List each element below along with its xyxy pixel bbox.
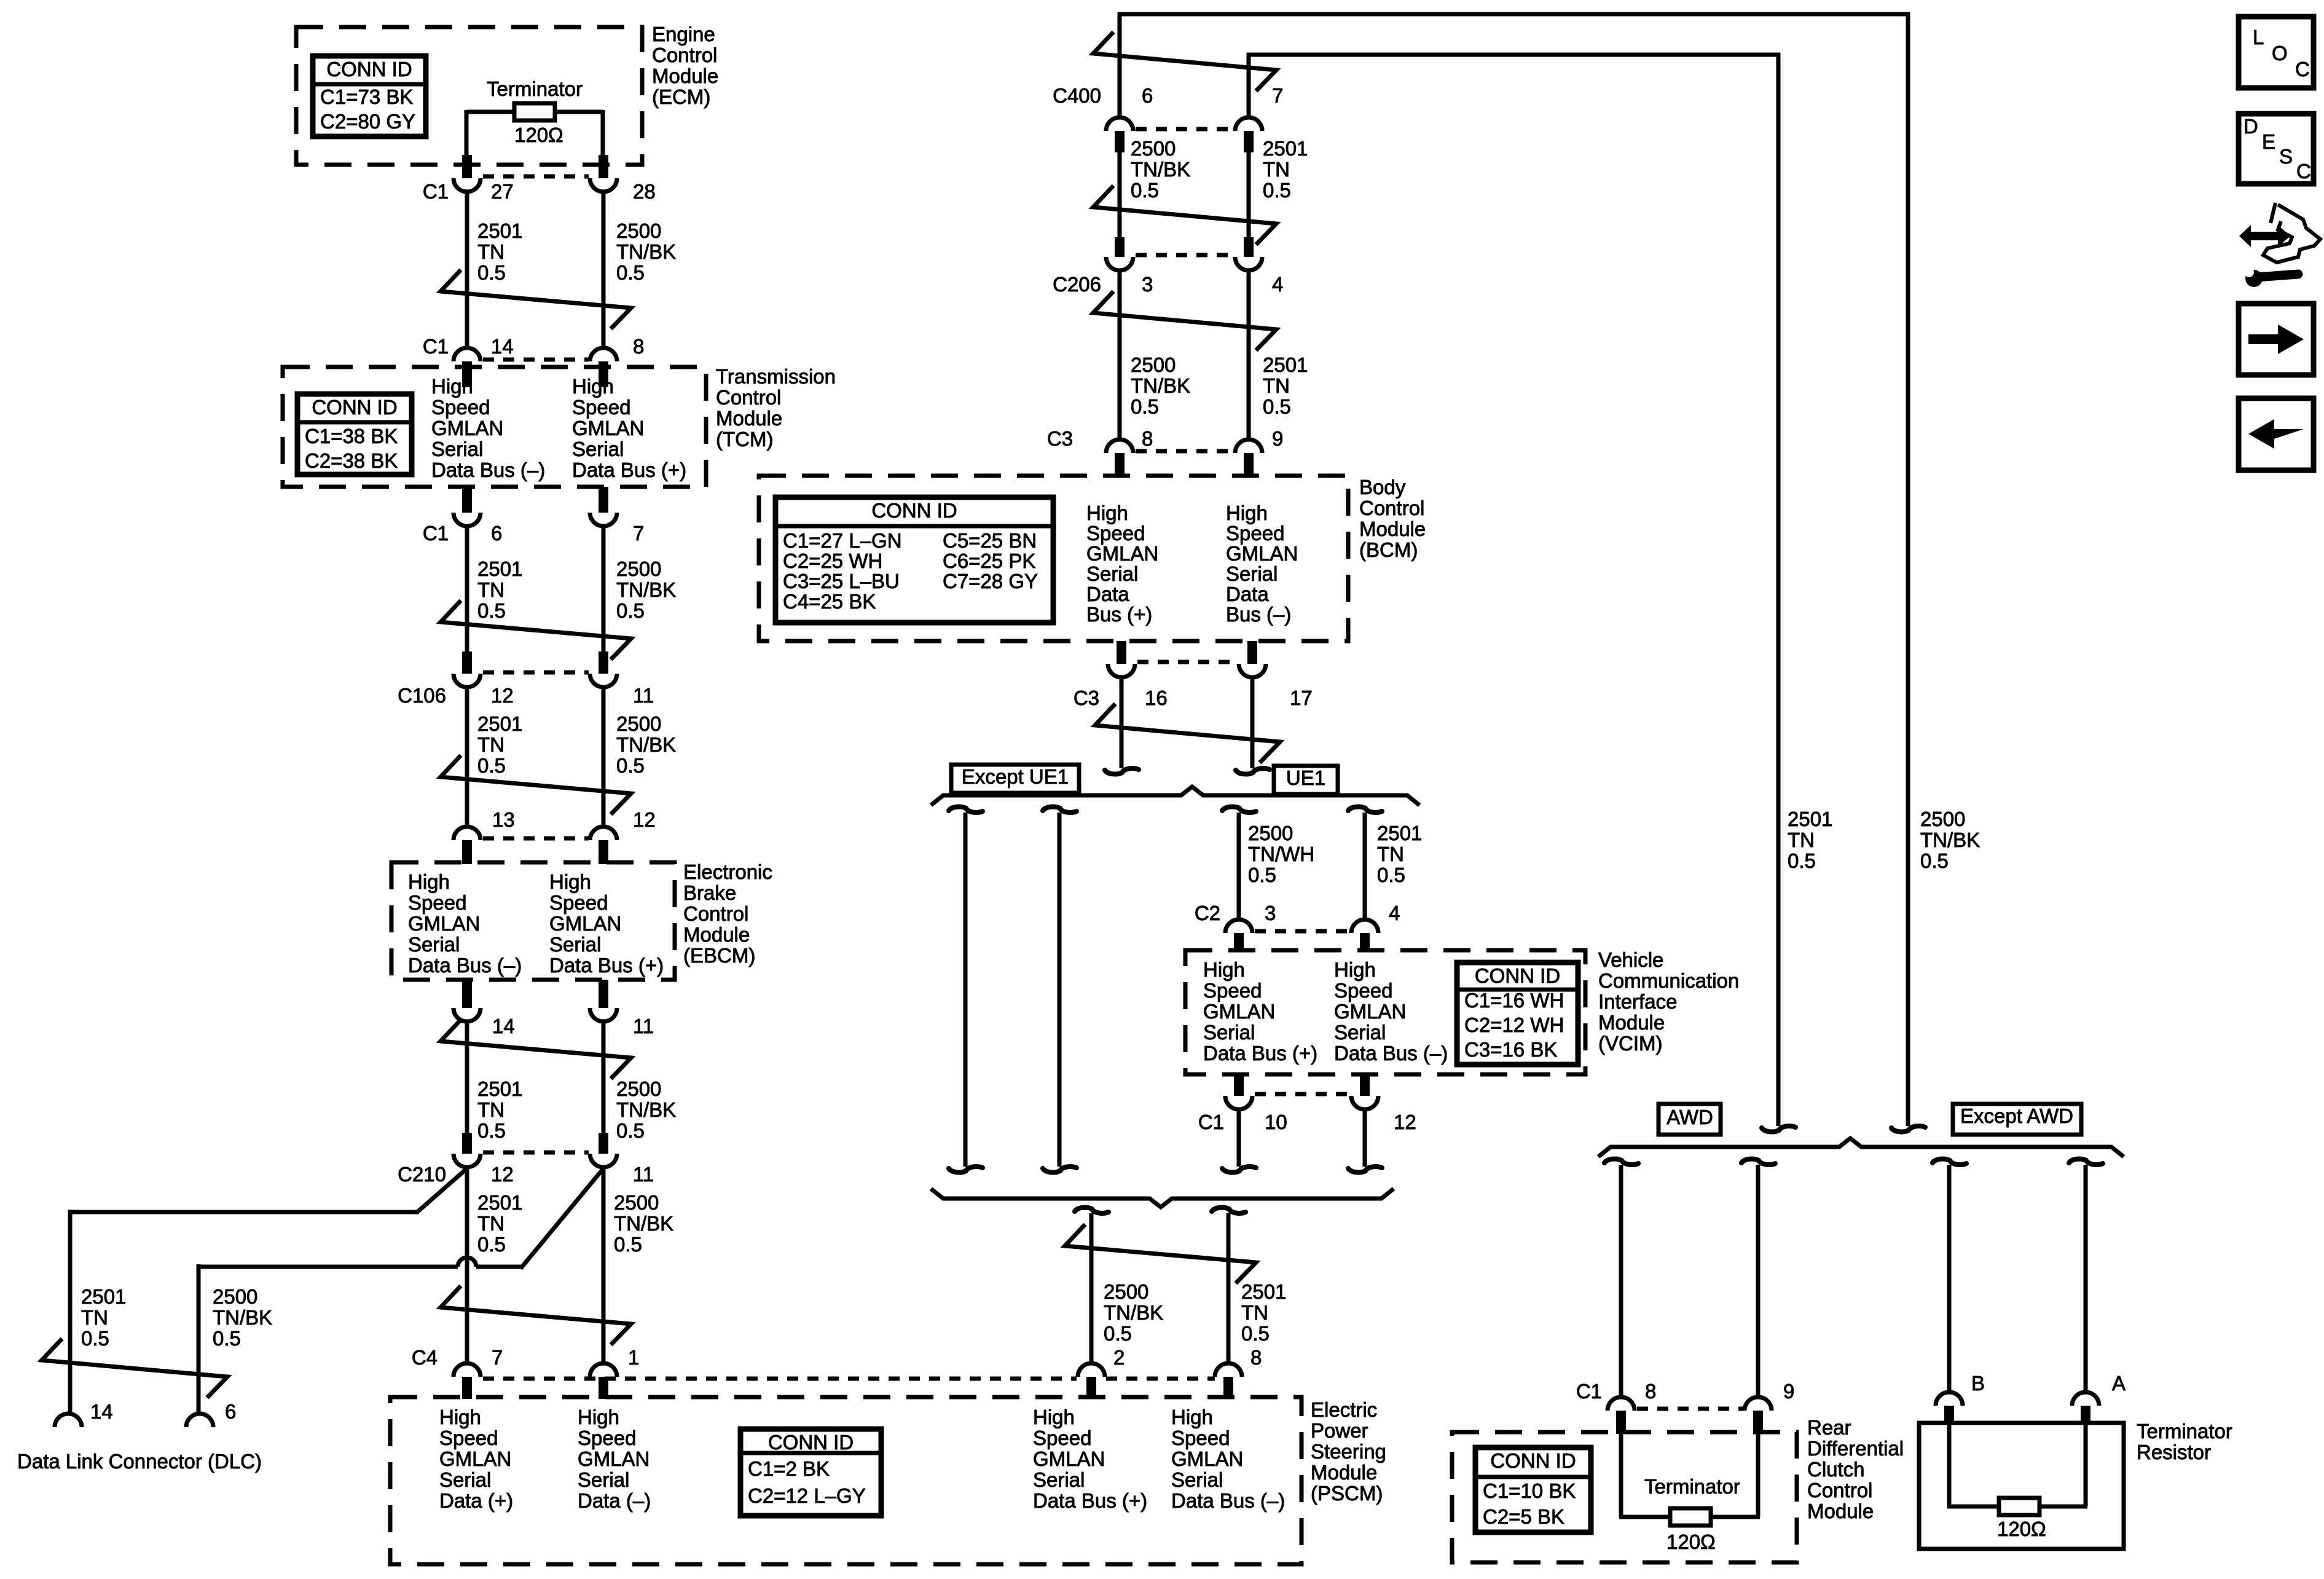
svg-text:(ECM): (ECM): [652, 85, 710, 108]
wire hook AWD right: [1741, 1159, 1775, 1165]
splice crossover symbol: [1065, 1224, 1256, 1283]
svg-text:Control: Control: [652, 44, 717, 66]
splice crossover symbol: [441, 600, 631, 660]
svg-text:Bus (+): Bus (+): [1086, 603, 1152, 626]
connector terminator pin B: [1936, 1392, 1963, 1406]
svg-text:0.5: 0.5: [81, 1327, 109, 1350]
connector line EBCM top: [483, 837, 589, 841]
svg-text:Clutch: Clutch: [1807, 1458, 1865, 1481]
svg-text:TN: TN: [1263, 158, 1290, 181]
resistor R terminator 120ohm in ECM: [466, 110, 514, 114]
svg-text:Data Bus (–): Data Bus (–): [1334, 1042, 1448, 1065]
connector C3 BCM pin 8: [1106, 439, 1133, 453]
svg-text:0.5: 0.5: [1248, 864, 1276, 886]
connector DLC pin 6: [186, 1414, 213, 1427]
wire 2500 TN/BK TCM to C106: [602, 526, 606, 654]
svg-text:CONN ID: CONN ID: [326, 58, 412, 81]
connector EBCM-out pin 14: [462, 980, 472, 1008]
wire hook Except-UE1 left: [949, 807, 983, 813]
connector C3 BCM-out pin 17: [1247, 641, 1257, 664]
svg-text:High: High: [408, 870, 450, 893]
svg-text:0.5: 0.5: [1241, 1322, 1270, 1345]
connector EBCM-out pin 11: [599, 980, 608, 1008]
svg-text:17: 17: [1290, 687, 1313, 709]
wire branch horizontal to DLC 6 right part: [476, 1265, 522, 1269]
svg-text:0.5: 0.5: [616, 1119, 645, 1142]
svg-text:16: 16: [1145, 687, 1168, 709]
svg-text:Speed: Speed: [549, 891, 608, 914]
connector C4 pin 1: [590, 1363, 617, 1377]
wire 2500 TN/BK C106 to EBCM: [602, 687, 606, 829]
svg-text:C1: C1: [1198, 1111, 1224, 1133]
svg-text:TN/BK: TN/BK: [616, 733, 676, 756]
svg-text:C1: C1: [423, 335, 449, 358]
wire C210-11 down to C4-1: [602, 1167, 606, 1363]
connector DLC pin 14: [55, 1414, 82, 1427]
svg-text:High: High: [549, 870, 591, 893]
svg-text:Data Bus (+): Data Bus (+): [1033, 1489, 1147, 1512]
wire 2501 TN ECM to TCM: [465, 192, 469, 348]
svg-text:TN: TN: [1788, 829, 1815, 851]
svg-text:A: A: [2112, 1372, 2126, 1395]
connector C4 pin 7: [453, 1363, 481, 1377]
svg-text:C2: C2: [1195, 902, 1220, 924]
wire 2501 TN C206 to BCM: [1247, 270, 1251, 439]
svg-text:Serial: Serial: [431, 438, 483, 460]
svg-text:GMLAN: GMLAN: [1033, 1447, 1105, 1470]
svg-text:C: C: [2296, 160, 2311, 183]
wire Except UE1 bus minus: [964, 813, 968, 1167]
icon box DESC: [2239, 114, 2314, 184]
svg-text:Control: Control: [1807, 1479, 1872, 1502]
svg-text:Module: Module: [1311, 1461, 1377, 1484]
svg-text:TN/BK: TN/BK: [616, 1098, 676, 1121]
connector C106 pin 12: [462, 652, 472, 674]
svg-text:C7=28 GY: C7=28 GY: [943, 570, 1038, 593]
svg-text:Module: Module: [1598, 1011, 1665, 1034]
connector C2 VCIM pin 4: [1351, 919, 1378, 933]
wire hook UE1 right: [1348, 807, 1382, 813]
svg-text:Speed: Speed: [431, 396, 490, 419]
svg-text:Speed: Speed: [1334, 979, 1392, 1002]
svg-text:Speed: Speed: [1171, 1427, 1230, 1449]
svg-text:TN: TN: [477, 733, 504, 756]
svg-text:S: S: [2279, 145, 2293, 168]
svg-text:11: 11: [633, 1015, 654, 1038]
svg-text:Module: Module: [683, 923, 750, 946]
connector line C1 RDCM: [1637, 1407, 1743, 1411]
splice crossover symbol: [441, 1020, 631, 1079]
svg-text:C106: C106: [398, 684, 446, 707]
svg-text:2500: 2500: [614, 1191, 659, 1214]
wire end hook: [1348, 1167, 1382, 1172]
svg-text:B: B: [1971, 1372, 1985, 1395]
splice crossover symbol: [1093, 186, 1276, 245]
svg-text:2501: 2501: [1263, 137, 1308, 160]
svg-text:GMLAN: GMLAN: [408, 912, 480, 935]
svg-text:Speed: Speed: [1203, 979, 1262, 1002]
svg-text:8: 8: [1250, 1346, 1262, 1369]
svg-text:CONN ID: CONN ID: [312, 396, 397, 419]
svg-text:2500: 2500: [1131, 137, 1176, 160]
icon box arrow right: [2239, 304, 2314, 375]
svg-text:0.5: 0.5: [477, 599, 506, 622]
wire hook UE1 left: [1222, 807, 1256, 813]
svg-text:L: L: [2253, 26, 2264, 49]
svg-text:GMLAN: GMLAN: [1203, 1000, 1275, 1023]
connector C1 VCIM pin 12: [1360, 1074, 1370, 1096]
svg-text:High: High: [439, 1406, 481, 1428]
svg-text:High: High: [1334, 958, 1376, 981]
svg-text:12: 12: [1394, 1111, 1416, 1133]
wire hook AWD left: [1604, 1159, 1638, 1165]
svg-text:Control: Control: [716, 386, 781, 409]
wire branch C210-11 to DLC diagonal: [520, 1168, 603, 1269]
svg-text:Module: Module: [716, 407, 782, 430]
wire DLC 6 drop: [197, 1264, 201, 1414]
svg-text:0.5: 0.5: [616, 261, 645, 284]
connector line C3 bottom: [1137, 660, 1238, 664]
svg-text:C3=16 BK: C3=16 BK: [1464, 1038, 1557, 1061]
wire to terminator B: [1947, 1165, 1952, 1392]
svg-text:0.5: 0.5: [213, 1327, 241, 1350]
svg-text:0.5: 0.5: [477, 261, 506, 284]
connector terminator pin A: [2072, 1392, 2099, 1406]
svg-text:2500: 2500: [616, 712, 661, 735]
svg-text:C2=80 GY: C2=80 GY: [320, 110, 415, 133]
module TCM box (Transmission Control Module): [283, 367, 706, 487]
wire 2500 TN/BK ECM to TCM: [602, 192, 606, 348]
wire end hook 16: [1105, 768, 1139, 774]
svg-text:2501: 2501: [1788, 808, 1832, 830]
svg-text:GMLAN: GMLAN: [578, 1447, 650, 1470]
svg-text:C2=38 BK: C2=38 BK: [305, 449, 398, 472]
svg-text:C1=27 L–GN: C1=27 L–GN: [783, 529, 902, 552]
svg-text:0.5: 0.5: [477, 1233, 506, 1256]
wire 2501 TN C106 to EBCM: [465, 687, 469, 829]
wire hook to PSCM left: [1075, 1208, 1109, 1213]
module VCIM box (Vehicle Communication Interface Module): [1185, 950, 1585, 1074]
wire 2500 TN/WH UE1: [1237, 813, 1241, 921]
svg-text:Speed: Speed: [1033, 1427, 1091, 1449]
resistor R terminator 120ohm standalone: [1999, 1498, 2039, 1515]
wire from BCM 17 down: [1250, 677, 1255, 768]
svg-text:TN/BK: TN/BK: [1104, 1301, 1163, 1324]
svg-text:High: High: [572, 375, 614, 398]
svg-text:Terminator: Terminator: [2137, 1420, 2232, 1443]
svg-text:Serial: Serial: [1086, 562, 1138, 585]
svg-text:C3=25 L–BU: C3=25 L–BU: [783, 570, 900, 593]
svg-text:(PSCM): (PSCM): [1311, 1482, 1383, 1505]
wire VCIM 12 down: [1363, 1109, 1367, 1167]
brace AWD options: [1598, 1138, 2124, 1157]
svg-text:Speed: Speed: [439, 1427, 498, 1449]
svg-text:Bus (–): Bus (–): [1226, 603, 1291, 626]
wire RDCM left lead: [1619, 1432, 1623, 1517]
svg-text:(BCM): (BCM): [1359, 538, 1418, 561]
svg-text:Differential: Differential: [1807, 1437, 1904, 1460]
connector C210 pin 12: [462, 1133, 472, 1154]
svg-text:2500: 2500: [616, 219, 661, 242]
connector line C106: [483, 671, 589, 675]
svg-text:C5=25 BN: C5=25 BN: [943, 529, 1037, 552]
svg-text:6: 6: [1142, 84, 1153, 107]
svg-text:C206: C206: [1053, 273, 1101, 296]
splice crossover symbol: [441, 1286, 631, 1345]
svg-text:O: O: [2272, 42, 2288, 65]
wire 2501 TN EBCM to C210: [465, 1022, 469, 1134]
wire end hook 2500: [1891, 1126, 1925, 1132]
wire C210-12 down to C4-7: [465, 1167, 469, 1363]
ECM CONN ID table: [313, 56, 426, 136]
svg-text:TN: TN: [1263, 374, 1290, 397]
svg-text:C: C: [2295, 58, 2310, 81]
wire 2501 TN TCM to C106: [465, 526, 469, 654]
svg-text:Data Bus (–): Data Bus (–): [1171, 1489, 1285, 1512]
connector line C2: [1255, 929, 1350, 934]
wire from BCM 16 down: [1120, 677, 1124, 768]
connector C1 RDCM pin 8: [1608, 1397, 1635, 1411]
svg-text:Except AWD: Except AWD: [1960, 1105, 2073, 1127]
svg-text:2501: 2501: [1241, 1280, 1286, 1303]
wire hook Except-UE1 right: [1043, 807, 1077, 813]
svg-text:2501: 2501: [477, 1077, 522, 1100]
svg-text:Electric: Electric: [1311, 1398, 1377, 1421]
connector C106 pin 11: [599, 652, 608, 674]
svg-text:2501: 2501: [477, 557, 522, 580]
svg-text:Terminator: Terminator: [487, 77, 583, 100]
wire hook to PSCM right: [1212, 1208, 1246, 1213]
svg-text:0.5: 0.5: [1920, 849, 1949, 872]
svg-text:C210: C210: [398, 1163, 446, 1186]
splice crossover symbol: [1093, 291, 1276, 350]
svg-text:C1: C1: [1576, 1380, 1602, 1403]
label box AWD: [1659, 1104, 1721, 1135]
connector line C1 TCM: [483, 358, 589, 362]
svg-text:2500: 2500: [1248, 822, 1293, 845]
svg-text:120Ω: 120Ω: [514, 124, 563, 146]
svg-text:Serial: Serial: [578, 1468, 629, 1491]
svg-text:6: 6: [225, 1400, 236, 1423]
svg-text:11: 11: [633, 684, 654, 707]
TCM CONN ID table: [297, 394, 412, 474]
svg-text:High: High: [431, 375, 473, 398]
svg-text:2500: 2500: [616, 1077, 661, 1100]
wire hook ExceptAWD right: [2069, 1159, 2103, 1165]
RDCM CONN ID table: [1475, 1447, 1591, 1532]
svg-text:TN: TN: [477, 1212, 504, 1235]
connector line C400: [1136, 127, 1234, 132]
svg-text:CONN ID: CONN ID: [871, 499, 957, 522]
connector C1 TCM-out pin 7: [599, 487, 608, 513]
svg-text:0.5: 0.5: [1263, 395, 1291, 418]
wire RDCM right lead: [1756, 1432, 1761, 1517]
svg-text:TN/BK: TN/BK: [616, 240, 676, 263]
svg-text:Speed: Speed: [1086, 522, 1145, 545]
svg-text:Speed: Speed: [408, 891, 466, 914]
svg-text:CONN ID: CONN ID: [1490, 1449, 1576, 1472]
svg-text:TN: TN: [477, 240, 504, 263]
svg-text:0.5: 0.5: [477, 1119, 506, 1142]
svg-text:High: High: [1033, 1406, 1075, 1428]
svg-text:C1: C1: [423, 180, 449, 203]
wire branch C210-12 to DLC diagonal: [417, 1168, 467, 1212]
svg-text:High: High: [1086, 502, 1128, 524]
svg-text:Data Bus (+): Data Bus (+): [549, 954, 664, 977]
label box UE1: [1274, 766, 1338, 794]
wire hop over vertical: [458, 1258, 476, 1267]
svg-text:Serial: Serial: [1203, 1021, 1255, 1044]
svg-text:TN: TN: [1241, 1301, 1268, 1324]
svg-text:Serial: Serial: [1334, 1021, 1386, 1044]
svg-text:8: 8: [1142, 427, 1153, 450]
svg-text:C3: C3: [1047, 427, 1073, 450]
brace UE1 options bottom: [931, 1189, 1394, 1207]
svg-text:TN/BK: TN/BK: [1131, 158, 1190, 181]
svg-text:C6=25 PK: C6=25 PK: [943, 549, 1035, 572]
svg-text:C400: C400: [1053, 84, 1101, 107]
svg-text:Engine: Engine: [652, 23, 715, 45]
svg-text:C4=25 BK: C4=25 BK: [783, 590, 876, 613]
svg-text:C3: C3: [1074, 687, 1099, 709]
svg-text:TN/BK: TN/BK: [213, 1306, 272, 1329]
svg-text:CONN ID: CONN ID: [1475, 964, 1560, 987]
BCM CONN ID table: [775, 497, 1053, 623]
svg-text:Power: Power: [1311, 1419, 1368, 1442]
svg-text:120Ω: 120Ω: [1666, 1530, 1716, 1553]
svg-text:Serial: Serial: [1226, 562, 1278, 585]
svg-text:Serial: Serial: [1171, 1468, 1223, 1491]
svg-text:Brake: Brake: [683, 881, 736, 904]
svg-text:Interface: Interface: [1598, 990, 1677, 1013]
svg-text:High: High: [1203, 958, 1245, 981]
wire branch horizontal to DLC 6 left part: [198, 1265, 458, 1269]
resistor R terminator RDCM 120ohm: [1670, 1508, 1711, 1526]
wire end hook: [949, 1167, 983, 1172]
svg-text:TN: TN: [1377, 843, 1404, 865]
svg-text:Data: Data: [1086, 583, 1129, 605]
wire 2501 TN UE1: [1363, 813, 1367, 921]
svg-text:Vehicle: Vehicle: [1598, 948, 1663, 971]
svg-text:C1: C1: [423, 522, 449, 545]
splice crossover symbol top: [1093, 32, 1276, 91]
connector C4 pin 2: [1078, 1363, 1105, 1377]
connector C1 TCM pin 8: [590, 348, 617, 361]
svg-text:Serial: Serial: [549, 933, 601, 956]
module ECM box (Engine Control Module): [296, 27, 642, 165]
svg-text:2501: 2501: [1377, 822, 1422, 845]
splice crossover symbol: [1095, 704, 1280, 763]
VCIM CONN ID table: [1457, 963, 1578, 1065]
connector line C206: [1136, 253, 1234, 258]
svg-text:Control: Control: [683, 902, 748, 925]
wire 2500 TN/BK top run: [1118, 12, 1122, 119]
svg-text:2501: 2501: [477, 712, 522, 735]
svg-text:2500: 2500: [213, 1285, 257, 1308]
svg-text:28: 28: [633, 180, 656, 203]
wire to terminator A: [2084, 1165, 2088, 1392]
svg-text:TN/WH: TN/WH: [1248, 843, 1314, 865]
connector C3 BCM-out pin 16: [1117, 641, 1126, 664]
svg-text:GMLAN: GMLAN: [549, 912, 621, 935]
svg-text:High: High: [1171, 1406, 1213, 1428]
svg-text:Data Bus (+): Data Bus (+): [1203, 1042, 1317, 1065]
svg-text:C2=12 L–GY: C2=12 L–GY: [748, 1484, 866, 1507]
svg-text:2500: 2500: [1131, 353, 1176, 376]
svg-text:C2=5 BK: C2=5 BK: [1483, 1505, 1564, 1528]
svg-text:120Ω: 120Ω: [1997, 1518, 2046, 1540]
svg-text:0.5: 0.5: [1788, 849, 1816, 872]
svg-text:Data Bus (–): Data Bus (–): [431, 459, 545, 481]
connector C1 VCIM pin 10: [1234, 1074, 1244, 1096]
svg-text:GMLAN: GMLAN: [572, 417, 644, 439]
svg-text:CONN ID: CONN ID: [768, 1431, 854, 1454]
svg-text:Module: Module: [1807, 1500, 1874, 1522]
wire ECM right lead: [601, 110, 605, 161]
connector EBCM pin 12: [590, 827, 617, 840]
connector C1 ECM pin 27: [462, 155, 472, 178]
connector C3 BCM pin 9: [1235, 439, 1262, 453]
svg-text:Speed: Speed: [1226, 522, 1284, 545]
wire AWD to RDCM pin 9: [1756, 1165, 1761, 1397]
wire 2500 TN/BK C400 to C206: [1118, 152, 1122, 238]
svg-text:1: 1: [628, 1346, 639, 1369]
wire 2500 TN/BK EBCM to C210: [602, 1022, 606, 1134]
svg-text:Data: Data: [1226, 583, 1269, 605]
svg-text:Data Bus (+): Data Bus (+): [572, 459, 686, 481]
svg-text:14: 14: [90, 1400, 113, 1423]
svg-text:9: 9: [1783, 1380, 1794, 1403]
svg-text:2500: 2500: [1104, 1280, 1148, 1303]
svg-text:(TCM): (TCM): [716, 428, 773, 451]
svg-text:Resistor: Resistor: [2137, 1441, 2211, 1463]
wire terminator right lead: [2084, 1423, 2088, 1506]
svg-text:Except UE1: Except UE1: [962, 765, 1069, 788]
connector C1 TCM-out pin 6: [462, 487, 472, 513]
svg-text:GMLAN: GMLAN: [1334, 1000, 1406, 1023]
connector C4 pin 8: [1215, 1363, 1242, 1377]
svg-text:2: 2: [1113, 1346, 1125, 1369]
svg-text:27: 27: [491, 180, 514, 203]
svg-text:Communication: Communication: [1598, 969, 1739, 992]
svg-text:7: 7: [1272, 84, 1283, 107]
wire branch horizontal to DLC 14: [70, 1210, 419, 1215]
wire AWD to RDCM pin 8: [1619, 1165, 1623, 1397]
svg-text:3: 3: [1265, 902, 1276, 924]
connector C206 pin 4: [1244, 237, 1254, 257]
svg-text:0.5: 0.5: [1377, 864, 1405, 886]
svg-text:0.5: 0.5: [616, 599, 645, 622]
svg-text:C4: C4: [412, 1346, 438, 1369]
connector line C3 top: [1136, 449, 1234, 454]
svg-text:GMLAN: GMLAN: [431, 417, 503, 439]
wire end hook: [1222, 1167, 1256, 1172]
icon box LOC: [2239, 17, 2314, 88]
svg-text:0.5: 0.5: [616, 754, 645, 777]
wire 2500 TN/BK C206 to BCM: [1118, 270, 1122, 439]
svg-text:6: 6: [491, 522, 502, 545]
module terminator resistor box: [1919, 1423, 2124, 1549]
label box Except UE1: [951, 765, 1079, 793]
wire hook ExceptAWD left: [1933, 1159, 1966, 1165]
wire 2501 TN to PSCM: [1227, 1213, 1231, 1363]
connector C206 pin 3: [1115, 237, 1125, 257]
wire Except UE1 bus plus: [1058, 813, 1062, 1167]
wire ECM left lead: [465, 110, 469, 161]
svg-text:0.5: 0.5: [1263, 179, 1291, 202]
svg-text:Body: Body: [1359, 476, 1406, 498]
svg-text:12: 12: [633, 808, 656, 831]
